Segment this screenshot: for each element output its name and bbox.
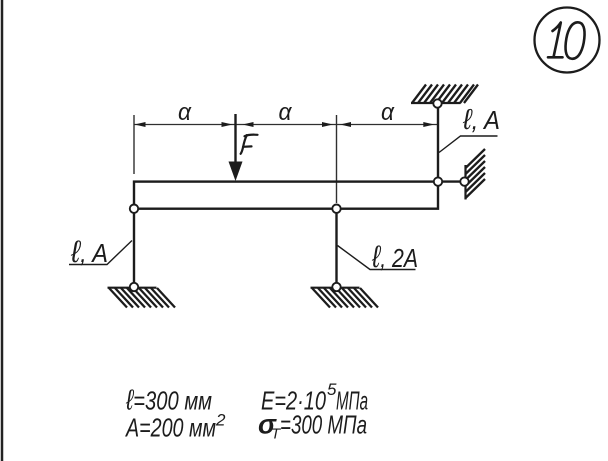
dimension line (three segments of a) bbox=[134, 124, 438, 126]
svg-text:2: 2 bbox=[215, 411, 226, 430]
left page border line bbox=[1, 0, 4, 461]
pin wall bbox=[460, 177, 468, 185]
given data line 1 left: l=300 mm bbox=[125, 385, 212, 417]
svg-text:ℓ, 2A: ℓ, 2A bbox=[371, 239, 418, 274]
svg-text:A=200 мм: A=200 мм bbox=[124, 413, 216, 443]
rod l,A right (vertical tie) bbox=[437, 104, 439, 182]
top fixed support (hatched) bbox=[411, 85, 478, 104]
leader and label l,2A bbox=[338, 239, 419, 274]
label F bbox=[241, 135, 258, 154]
task number badge circle 10 bbox=[535, 8, 600, 73]
witness line middle bbox=[336, 115, 338, 203]
svg-text:α: α bbox=[178, 99, 192, 126]
rod l,2A middle (vertical) bbox=[335, 209, 337, 287]
given data line 1 right: E=2e5 MPa bbox=[261, 380, 368, 416]
pin beam left end bbox=[130, 205, 138, 213]
beam (rigid bar rectangle) bbox=[134, 182, 438, 209]
pin left ground bbox=[130, 283, 138, 291]
left ground support (hatched) bbox=[108, 288, 176, 308]
pin top support bbox=[433, 99, 441, 107]
right wall support (hatched) bbox=[466, 149, 486, 200]
svg-text:ℓ, A: ℓ, A bbox=[462, 104, 500, 136]
label a segment 2 bbox=[279, 99, 293, 126]
dimension arrows bbox=[135, 122, 435, 127]
given data line 2 right: sigma_T=300 MPa bbox=[258, 410, 367, 443]
svg-text:ℓ, A: ℓ, A bbox=[70, 234, 108, 269]
rod l,A left (vertical) bbox=[133, 209, 135, 287]
pin beam middle bbox=[332, 205, 340, 213]
witness line left bbox=[133, 115, 135, 174]
leader and label l,A right bbox=[439, 104, 500, 153]
label a segment 3 bbox=[381, 99, 395, 126]
svg-text:=300 МПа: =300 МПа bbox=[280, 410, 367, 440]
label a segment 1 bbox=[178, 99, 192, 126]
leader and label l,A left bbox=[69, 234, 132, 269]
middle ground support (hatched) bbox=[311, 288, 379, 308]
svg-text:α: α bbox=[279, 99, 293, 126]
pin middle ground bbox=[332, 283, 340, 291]
given data line 2 left: A=200 mm2 bbox=[124, 411, 226, 443]
svg-text:α: α bbox=[381, 99, 395, 126]
force F arrow bbox=[229, 114, 243, 181]
pin beam right end bbox=[434, 177, 442, 185]
wall link rod bbox=[438, 180, 465, 182]
